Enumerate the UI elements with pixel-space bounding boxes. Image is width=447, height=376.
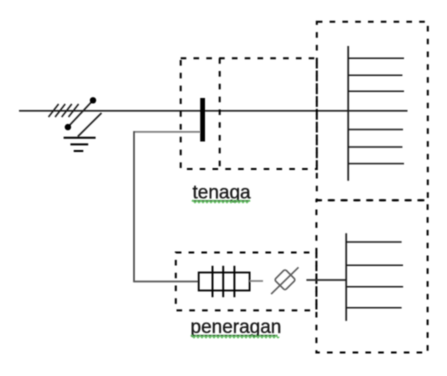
power branch 6 [348,163,404,165]
label tenaga squiggle [192,200,250,202]
power branch 1 [348,57,404,59]
wire to lighting distribution [306,279,346,281]
power branch 4 [348,129,403,131]
wire tap vertical (grey) [133,131,135,282]
wire tap horizontal lower (grey) [133,281,199,283]
switch blade S1 [68,100,93,127]
hatch marks on feeder (meter) [49,104,79,117]
label peneragan squiggle [191,335,279,337]
power branch 5 [348,146,402,148]
node dot upper [90,97,96,103]
lighting branch 2 [346,264,403,266]
lighting branch 1 [346,241,401,243]
tenaga panel dashed box [181,58,317,169]
tenaga panel divider [219,58,221,169]
breaker bar [200,98,205,142]
ground [64,138,96,151]
wire tap horizontal upper (grey) [134,131,200,133]
fuse box F1 [199,273,250,291]
power distribution dashed box [317,22,428,201]
lamp switch diagonal [271,267,298,294]
power branch 3 [348,90,404,92]
label tenaga underline [193,200,250,202]
power branch 2 [348,74,402,76]
node dot lower [65,124,71,130]
lighting branch 3 [346,286,403,288]
earth lead [78,113,102,137]
lamp switch diamond [274,269,295,290]
lighting busbar [345,233,347,321]
lighting distribution dashed box [316,200,427,352]
lighting branch 4 [346,307,401,309]
wire fuse to lamp switch (grey) [250,280,263,282]
label peneragan underline [191,335,278,337]
wire main feeder [19,110,408,112]
peneragan panel dashed box [176,253,317,311]
power busbar [347,46,349,181]
fuse bars [213,266,235,297]
